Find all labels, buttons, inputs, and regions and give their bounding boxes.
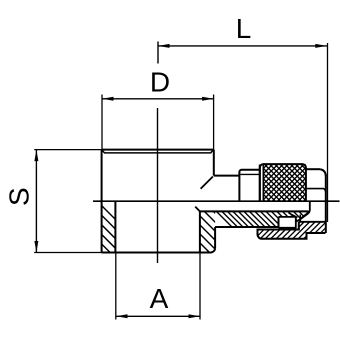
nut right edge [325, 175, 327, 234]
body right edge [213, 150, 215, 176]
svg-text:L: L [236, 13, 252, 44]
nut lower back left boundary [296, 201, 310, 221]
nut lower back bottom edge [299, 221, 326, 223]
dimension D right extension [213, 95, 215, 150]
dimension L right extension [327, 43, 329, 222]
dimension L right arrow [315, 44, 327, 48]
dimension D left extension [101, 95, 103, 150]
body left edge [101, 150, 103, 253]
dimension D right arrow [202, 97, 214, 101]
dimension L left arrow [158, 44, 170, 48]
nut collar hatch [252, 222, 340, 242]
socket left wall inner edge [114, 201, 116, 252]
dimension A right arrow [189, 314, 201, 318]
tube end rectangle [279, 217, 297, 228]
washer chamfer line [241, 173, 260, 175]
stub top edge [214, 175, 240, 177]
flange hatch [192, 181, 240, 283]
dimension S line [35, 150, 37, 253]
body top face [102, 149, 214, 151]
stub band top edge [200, 210, 309, 212]
knurled nut block outline [260, 164, 306, 201]
thread engagement diagonals [289, 212, 309, 222]
knurl cross hatch [261, 103, 308, 260]
dimension L left extension (centerline top) [157, 42, 159, 64]
dimension A left arrow [116, 314, 128, 318]
body top chamfer line [102, 150, 214, 153]
horizontal centerline / shoulder line [93, 200, 340, 202]
flange inner edge [199, 211, 201, 252]
nut threaded collar outline [258, 222, 326, 239]
left wall hatch [95, 199, 135, 287]
stub band hatch [210, 205, 323, 235]
dimension A left extension [115, 253, 117, 320]
nut hex facet line [306, 189, 326, 193]
washer between stub and nut [239, 170, 259, 201]
flange top chamfer diagonal [195, 207, 200, 212]
dimension S bottom arrow [34, 241, 38, 253]
dimension L line [158, 45, 327, 47]
svg-text:A: A [150, 283, 169, 314]
dimension S bottom extension [34, 252, 101, 254]
nut hex back chamfer [320, 169, 326, 175]
dimension A right extension [199, 253, 201, 320]
stub band bottom edge [215, 226, 278, 228]
vertical centerline of body [157, 108, 159, 263]
body bottom face [102, 248, 216, 252]
washer right / knurl left edge [259, 165, 261, 202]
dimension A line [116, 315, 200, 317]
cone transition diagonal (upper) [201, 177, 213, 189]
flange outer edge [214, 227, 216, 248]
svg-text:D: D [150, 67, 170, 98]
dimension D left arrow [102, 97, 114, 101]
dimension D line [102, 98, 214, 100]
knurl inner left line [262, 164, 264, 201]
dimension S top extension [34, 149, 101, 151]
dimension S top arrow [34, 150, 38, 162]
svg-text:S: S [4, 187, 35, 206]
nut hex back top edge [306, 168, 320, 170]
